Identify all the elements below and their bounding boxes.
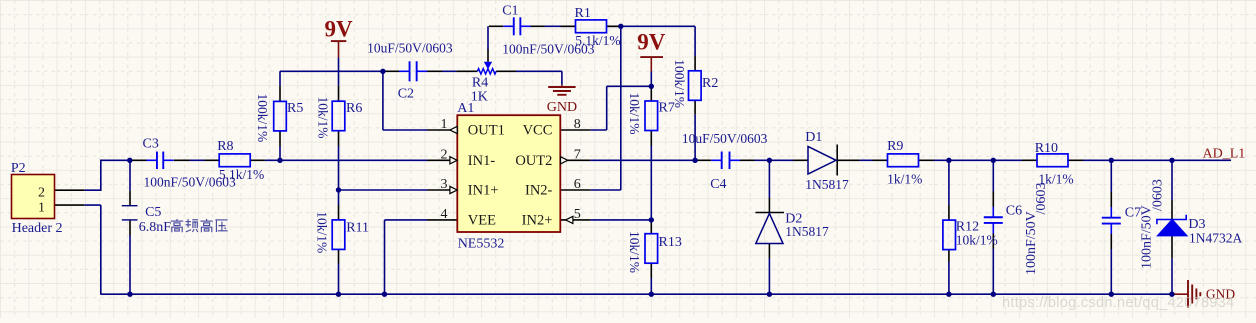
svg-text:10uF/50V/0603: 10uF/50V/0603	[367, 41, 453, 56]
svg-text:5.1k/1%: 5.1k/1%	[219, 167, 264, 182]
svg-text:VEE: VEE	[468, 213, 496, 229]
svg-text:P2: P2	[11, 161, 26, 176]
svg-text:C5: C5	[145, 205, 161, 220]
svg-text:R5: R5	[287, 101, 303, 116]
svg-text:100nF/50V: 100nF/50V	[1140, 205, 1155, 269]
svg-text:1N5817: 1N5817	[805, 177, 849, 192]
svg-text:4: 4	[441, 207, 448, 222]
svg-text:9V: 9V	[324, 16, 353, 41]
svg-text:1N4732A: 1N4732A	[1189, 230, 1242, 245]
svg-text:10k/1%: 10k/1%	[956, 233, 998, 248]
svg-text:R2: R2	[702, 76, 718, 91]
svg-text:IN2-: IN2-	[525, 183, 553, 199]
svg-text:R13: R13	[659, 235, 682, 250]
svg-text:R4: R4	[472, 75, 488, 90]
svg-text:1k/1%: 1k/1%	[887, 171, 922, 186]
svg-text:/0603: /0603	[1034, 183, 1049, 215]
svg-text:NE5532: NE5532	[458, 237, 505, 252]
svg-text:10k/1%: 10k/1%	[315, 97, 330, 139]
svg-text:6.8nF: 6.8nF	[139, 220, 172, 235]
svg-text:IN1-: IN1-	[468, 153, 496, 169]
svg-text:2: 2	[38, 186, 45, 201]
svg-text:IN2+: IN2+	[522, 213, 553, 229]
svg-text:A1: A1	[457, 101, 474, 116]
svg-text:100k/1%: 100k/1%	[255, 94, 270, 143]
svg-text:Header 2: Header 2	[12, 221, 63, 236]
svg-text:R10: R10	[1035, 141, 1058, 156]
svg-text:OUT2: OUT2	[515, 153, 552, 169]
svg-text:7: 7	[574, 147, 581, 162]
svg-text:5: 5	[574, 207, 581, 222]
svg-text:C2: C2	[398, 86, 414, 101]
svg-text:GND: GND	[547, 100, 577, 115]
svg-text:3: 3	[441, 177, 448, 192]
svg-text:1k/1%: 1k/1%	[1038, 171, 1073, 186]
svg-text:R7: R7	[659, 101, 675, 116]
svg-text:1N5817: 1N5817	[785, 224, 829, 239]
svg-text:/0603: /0603	[1151, 179, 1166, 211]
svg-text:5.1k/1%: 5.1k/1%	[575, 33, 620, 48]
svg-text:D1: D1	[805, 130, 822, 145]
svg-text:100nF/50V: 100nF/50V	[1024, 211, 1039, 275]
svg-text:10k/1%: 10k/1%	[627, 93, 642, 135]
svg-text:R11: R11	[346, 220, 369, 235]
svg-text:10uF/50V/0603: 10uF/50V/0603	[682, 131, 768, 146]
svg-text:6: 6	[574, 177, 581, 192]
svg-text:8: 8	[574, 117, 581, 132]
svg-text:AD_L1: AD_L1	[1203, 147, 1246, 162]
svg-text:9V: 9V	[637, 30, 666, 55]
svg-text:R8: R8	[217, 139, 233, 154]
svg-text:C3: C3	[143, 136, 159, 151]
svg-text:2: 2	[441, 147, 448, 162]
svg-text:1: 1	[38, 200, 45, 215]
svg-text:10k/1%: 10k/1%	[627, 231, 642, 273]
svg-text:C4: C4	[710, 177, 726, 192]
svg-text:C6: C6	[1006, 203, 1022, 218]
svg-text:R6: R6	[346, 101, 362, 116]
svg-text:1: 1	[441, 117, 448, 132]
svg-text:R9: R9	[887, 139, 903, 154]
svg-text:R1: R1	[575, 6, 591, 21]
svg-text:IN1+: IN1+	[468, 183, 499, 199]
svg-text:OUT1: OUT1	[468, 123, 505, 139]
svg-text:VCC: VCC	[523, 123, 553, 139]
svg-text:10k/1%: 10k/1%	[315, 211, 330, 253]
svg-text:https://blog.csdn.net/qq_42078: https://blog.csdn.net/qq_42078934	[1002, 295, 1234, 311]
svg-text:C1: C1	[502, 3, 518, 18]
